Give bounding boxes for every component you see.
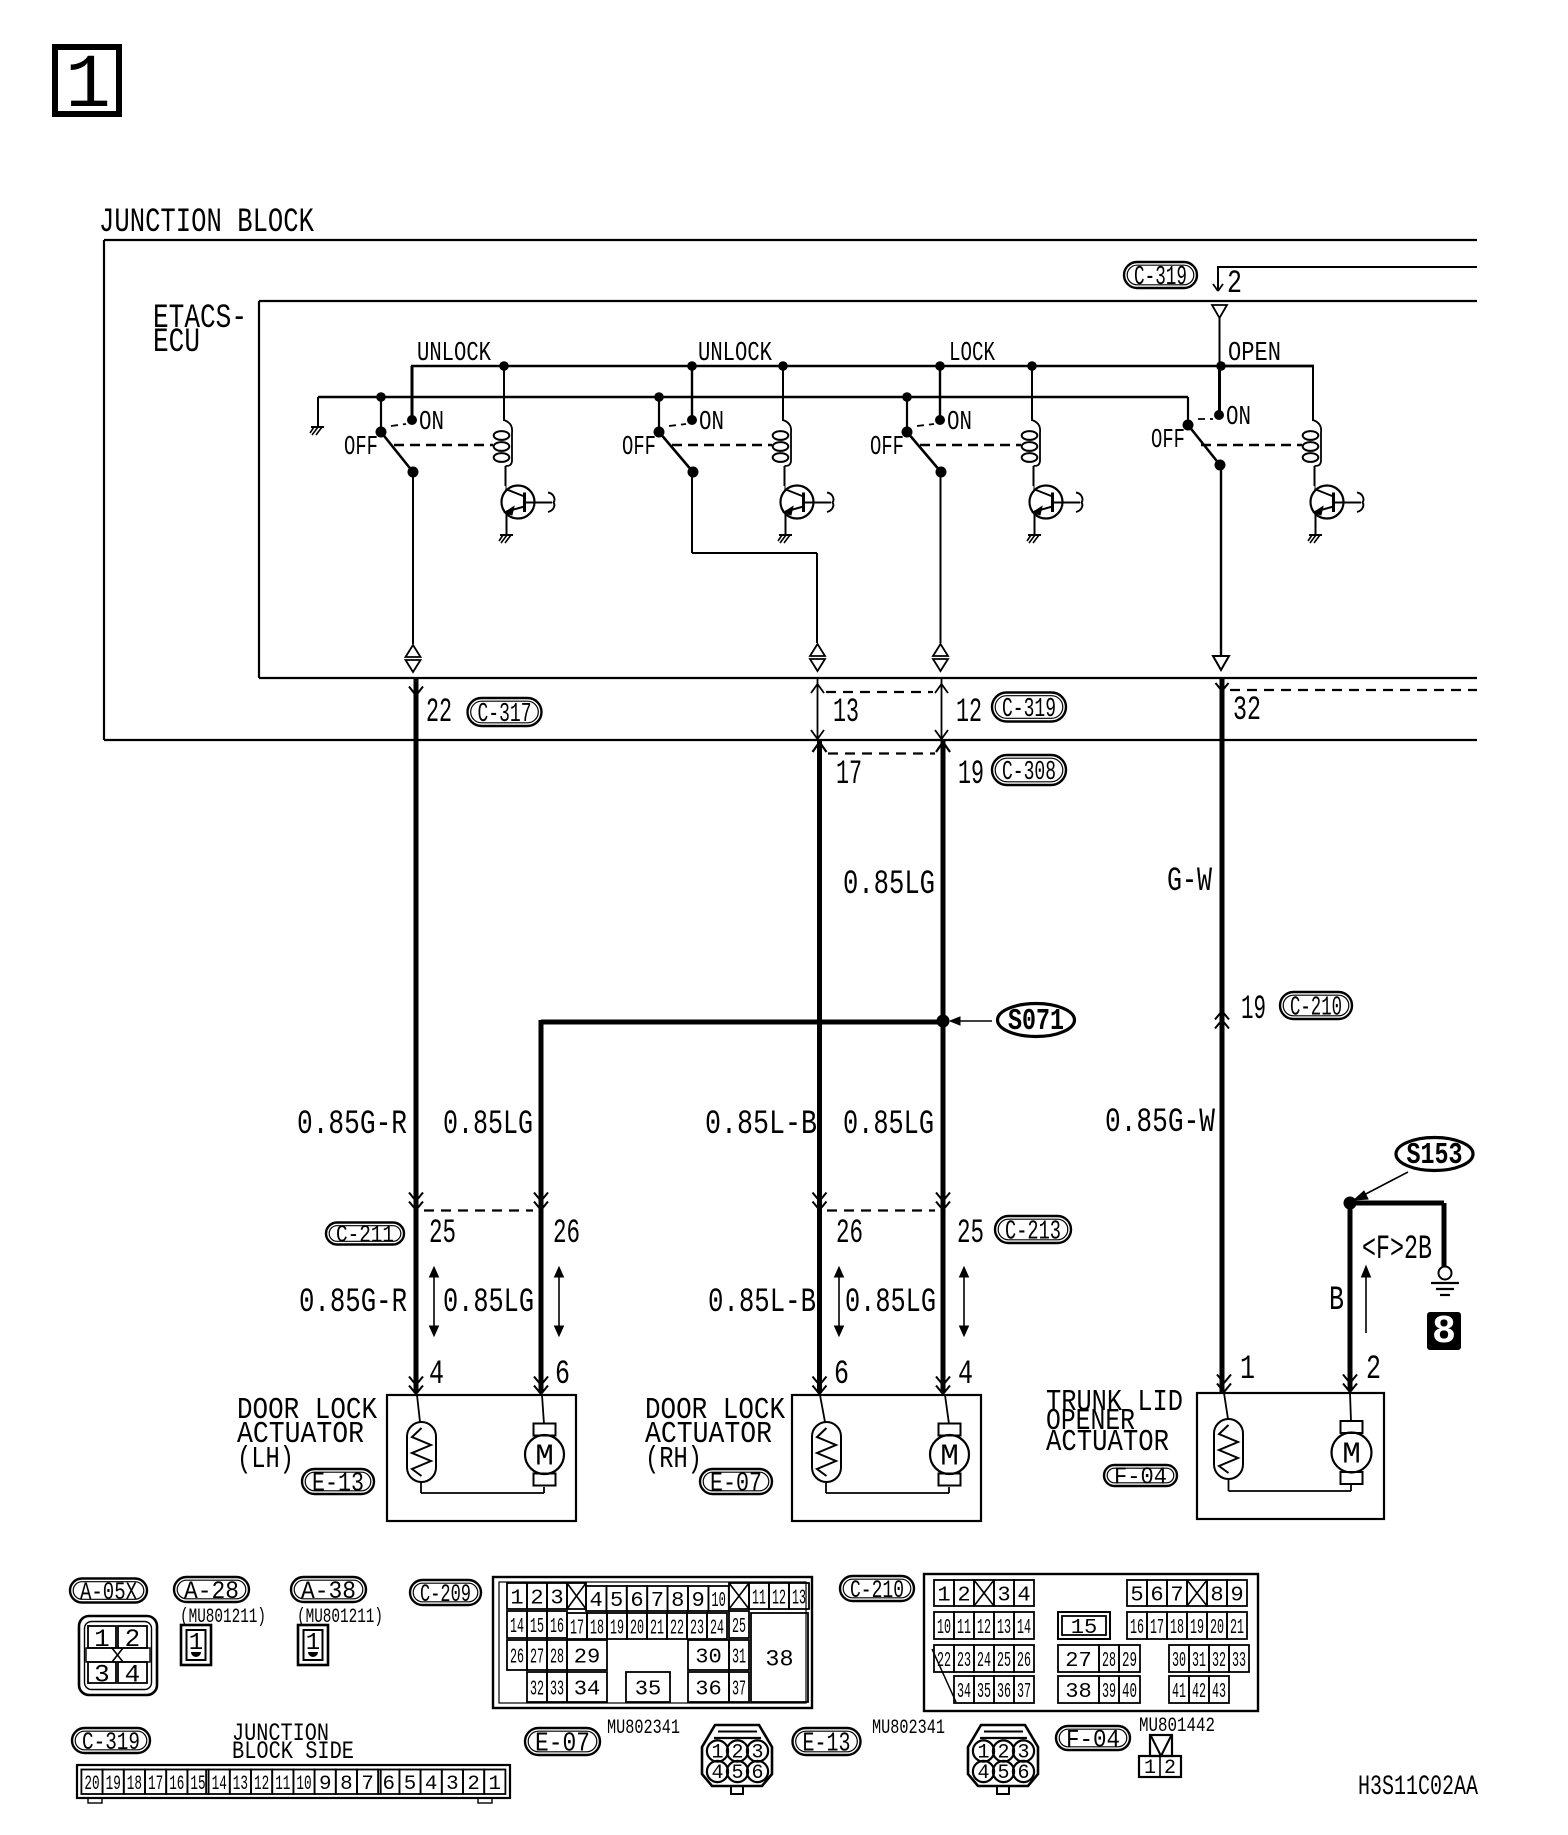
- svg-text:1: 1: [937, 1584, 950, 1608]
- switch S2 arm: [659, 432, 699, 478]
- svg-text:14: 14: [510, 1615, 524, 1639]
- svg-text:C-209: C-209: [420, 1580, 471, 1609]
- splice S071 pointer: [950, 1017, 992, 1025]
- svg-text:32: 32: [1212, 1649, 1226, 1673]
- switch S3 pivot: [902, 427, 913, 438]
- direction arrow 4: [960, 1267, 969, 1336]
- connector E-13 pinout: [968, 1725, 1038, 1794]
- connector symbol into ETACS: [1212, 305, 1227, 363]
- svg-text:18: 18: [127, 1773, 142, 1796]
- relay unit 2 label UNLOCK: [698, 338, 772, 368]
- direction arrow (F)2B: [1362, 1266, 1371, 1333]
- svg-text:19: 19: [610, 1617, 624, 1641]
- ground (ON bus left end): [310, 397, 324, 435]
- svg-text:2: 2: [957, 1584, 970, 1608]
- wire label G-W: [1167, 863, 1212, 901]
- svg-text:38: 38: [1065, 1680, 1092, 1704]
- body ground: [1431, 1267, 1459, 1296]
- svg-text:37: 37: [732, 1678, 746, 1702]
- page ref 8: [1427, 1310, 1461, 1355]
- svg-text:0.85LG: 0.85LG: [443, 1106, 533, 1144]
- svg-text:M: M: [1342, 1438, 1361, 1473]
- svg-text:0.85LG: 0.85LG: [443, 1284, 534, 1322]
- svg-text:19: 19: [958, 756, 984, 794]
- wire label 0.85LG (right lower): [845, 1284, 936, 1322]
- switch S4 OFF label: [1151, 425, 1185, 455]
- connector E-07 ref: [700, 1469, 772, 1500]
- svg-text:E-07: E-07: [535, 1729, 590, 1760]
- node coil2 tap: [778, 361, 788, 371]
- svg-text:4: 4: [711, 1762, 723, 1785]
- svg-text:16: 16: [169, 1773, 184, 1796]
- svg-text:7: 7: [651, 1589, 664, 1613]
- svg-text:1: 1: [94, 1625, 110, 1654]
- node ON3 tap: [935, 361, 945, 371]
- svg-text:11: 11: [957, 1616, 971, 1640]
- svg-text:C-210: C-210: [850, 1576, 904, 1605]
- svg-text:1: 1: [65, 43, 111, 129]
- svg-text:35: 35: [635, 1678, 662, 1702]
- svg-text:4: 4: [425, 1773, 438, 1796]
- svg-text:26: 26: [510, 1646, 524, 1670]
- svg-text:24: 24: [977, 1649, 991, 1673]
- ground (under Q3): [1027, 535, 1041, 543]
- svg-text:20: 20: [1210, 1616, 1224, 1640]
- wire label 0.85LG (upper): [843, 866, 935, 904]
- svg-text:8: 8: [1210, 1584, 1223, 1608]
- svg-text:6: 6: [834, 1356, 849, 1394]
- connector C-210 ref (bottom): [840, 1576, 914, 1605]
- svg-text:34: 34: [957, 1680, 971, 1704]
- svg-text:A-05X: A-05X: [80, 1578, 137, 1607]
- wire 17 (below JB): [813, 741, 863, 1209]
- svg-text:25: 25: [997, 1649, 1011, 1673]
- svg-text:36: 36: [997, 1680, 1011, 1704]
- wire label B: [1329, 1282, 1344, 1320]
- svg-text:0.85L-B: 0.85L-B: [705, 1106, 817, 1144]
- ETACS-ECU box: [259, 301, 1477, 678]
- wire bus2 to pivot1: [376, 392, 386, 432]
- svg-text:25: 25: [429, 1215, 456, 1253]
- connector E-13 ref: [302, 1469, 374, 1500]
- connector C-209 pinout: [493, 1577, 812, 1708]
- svg-text:2: 2: [125, 1625, 141, 1654]
- svg-text:18: 18: [1170, 1616, 1184, 1640]
- svg-text:13: 13: [792, 1587, 806, 1611]
- svg-text:37: 37: [1017, 1680, 1031, 1704]
- connector A-38 pinout (MU801211): [297, 1606, 383, 1665]
- svg-text:34: 34: [574, 1678, 601, 1702]
- relay unit 1 label UNLOCK: [417, 338, 491, 368]
- svg-text:22: 22: [937, 1649, 951, 1673]
- relay coil K2: [773, 366, 791, 486]
- connector C-319 junction block side pinout: [77, 1765, 510, 1803]
- svg-text:12: 12: [977, 1616, 991, 1640]
- svg-text:14: 14: [1017, 1616, 1031, 1640]
- wire 32: [1216, 679, 1262, 1393]
- wire B to pin 2: [1343, 1203, 1381, 1392]
- connector A-28 ref: [174, 1577, 249, 1606]
- svg-text:S071: S071: [1008, 1005, 1064, 1039]
- svg-text:20: 20: [630, 1617, 644, 1641]
- svg-text:(RH): (RH): [645, 1443, 702, 1477]
- connector C-319 (mid): [992, 693, 1066, 726]
- svg-text:5: 5: [1130, 1584, 1143, 1608]
- svg-text:A-38: A-38: [301, 1577, 356, 1606]
- switch S4 pivot: [1183, 420, 1194, 431]
- svg-text:0.85G-W: 0.85G-W: [1105, 1104, 1215, 1142]
- svg-text:G-W: G-W: [1167, 863, 1212, 901]
- svg-text:27: 27: [530, 1646, 544, 1670]
- svg-text:ON: ON: [1226, 402, 1251, 432]
- svg-text:11: 11: [752, 1587, 766, 1611]
- connector C-210 (inline): [1280, 992, 1352, 1024]
- svg-text:23: 23: [690, 1617, 704, 1641]
- svg-text:5: 5: [610, 1589, 623, 1613]
- connector C-213: [995, 1216, 1071, 1248]
- transistor Q3: [1030, 486, 1083, 535]
- transistor Q4: [1311, 486, 1364, 535]
- wire Q-out 3: [933, 471, 948, 671]
- svg-text:28: 28: [550, 1646, 564, 1670]
- ETACS-ECU label: [153, 300, 247, 362]
- svg-text:32: 32: [530, 1678, 544, 1702]
- svg-text:OPEN: OPEN: [1228, 338, 1281, 368]
- wire 19 to pin 4: [936, 1208, 973, 1394]
- svg-text:0.85G-R: 0.85G-R: [299, 1284, 407, 1322]
- relay coil K4 dashed link: [1201, 444, 1302, 446]
- svg-text:39: 39: [1102, 1680, 1116, 1704]
- switch S4 dashed throw: [1198, 418, 1213, 420]
- junction block side label: [232, 1719, 354, 1766]
- svg-text:30: 30: [1172, 1649, 1186, 1673]
- svg-text:7: 7: [1170, 1584, 1183, 1608]
- switch S2 dashed throw: [669, 424, 686, 426]
- connector C-317: [468, 698, 542, 730]
- connector A-05X pinout: [79, 1616, 157, 1695]
- wire 22 (pin 22 C-317): [409, 679, 452, 1208]
- relay coil K3: [1022, 366, 1040, 486]
- svg-text:2: 2: [1164, 1757, 1176, 1780]
- relay coil K1 dashed link: [394, 444, 493, 446]
- svg-text:C-319: C-319: [1002, 694, 1056, 725]
- svg-text:25: 25: [957, 1215, 984, 1253]
- part no MU802341 (E-07): [607, 1717, 680, 1740]
- switch S2 OFF label: [622, 432, 656, 462]
- connector C-308: [992, 755, 1066, 788]
- svg-text:26: 26: [1017, 1649, 1031, 1673]
- svg-text:ON: ON: [699, 407, 724, 437]
- svg-text:30: 30: [695, 1646, 722, 1670]
- wire UNLOCK/LOCK/OPEN bus: [411, 365, 1314, 368]
- svg-text:5: 5: [731, 1762, 743, 1785]
- svg-text:3: 3: [550, 1587, 563, 1611]
- connector C-210 crossing pin 19: [1215, 991, 1266, 1029]
- switch S3 arm: [907, 432, 947, 478]
- svg-text:19: 19: [106, 1773, 121, 1796]
- svg-text:12: 12: [772, 1587, 786, 1611]
- door lock actuator LH (E-13): [237, 1394, 576, 1521]
- svg-text:2: 2: [530, 1587, 543, 1611]
- splice S153 pointer: [1354, 1172, 1408, 1200]
- trunk lid opener actuator (F-04): [1046, 1386, 1384, 1519]
- svg-text:13: 13: [997, 1616, 1011, 1640]
- svg-text:3: 3: [94, 1661, 110, 1690]
- svg-text:F-04: F-04: [1066, 1725, 1120, 1754]
- wire label 0.85G-R (lower): [299, 1284, 407, 1322]
- wire Q-out 2 jog: [692, 469, 825, 671]
- svg-text:22: 22: [426, 694, 452, 732]
- svg-text:6: 6: [555, 1356, 570, 1394]
- svg-text:F-04: F-04: [1114, 1464, 1167, 1491]
- svg-text:7: 7: [361, 1773, 374, 1796]
- transistor Q1: [502, 486, 555, 535]
- svg-text:17: 17: [570, 1617, 584, 1641]
- svg-text:1: 1: [510, 1587, 523, 1611]
- direction arrow 3: [835, 1267, 844, 1336]
- connector C-210 pinout: [924, 1574, 1258, 1711]
- ground (under Q2): [778, 535, 792, 543]
- svg-text:ECU: ECU: [153, 324, 200, 362]
- splice S153: [1396, 1138, 1473, 1174]
- svg-text:11: 11: [275, 1773, 290, 1796]
- svg-text:40: 40: [1122, 1680, 1137, 1704]
- svg-text:(LH): (LH): [237, 1443, 294, 1477]
- svg-text:LOCK: LOCK: [949, 338, 995, 368]
- connector F-04 ref (bottom): [1056, 1725, 1130, 1754]
- wire 19 (below JB): [936, 741, 984, 1021]
- wire branch at C-211 pin 26: [534, 1193, 580, 1254]
- switch S2 ON contact: [687, 407, 724, 437]
- wire bus1 to ON1: [411, 366, 414, 420]
- svg-text:15: 15: [190, 1773, 205, 1796]
- wire pin13 segment: [811, 679, 859, 739]
- node coil1 tap: [499, 361, 509, 371]
- svg-text:<F>2B: <F>2B: [1362, 1231, 1432, 1269]
- junction dashed link 17-19: [828, 752, 935, 754]
- junction dashed link 13-12: [826, 691, 933, 693]
- part no MU801442: [1139, 1715, 1215, 1738]
- svg-text:B: B: [1329, 1282, 1344, 1320]
- svg-text:20: 20: [84, 1773, 99, 1796]
- relay coil K4: [1303, 366, 1321, 486]
- wire bus1 to ON2: [691, 366, 693, 420]
- svg-text:4: 4: [125, 1661, 141, 1690]
- connector E-07 ref (bottom): [525, 1728, 600, 1760]
- svg-text:13: 13: [833, 694, 859, 732]
- svg-text:6: 6: [1150, 1584, 1163, 1608]
- wire 19 lower: [941, 1021, 946, 1209]
- wire label 0.85L-B (upper): [705, 1106, 817, 1144]
- svg-text:M: M: [535, 1440, 554, 1475]
- svg-text:S153: S153: [1407, 1139, 1463, 1173]
- connector C-209 ref: [410, 1580, 481, 1609]
- wire label 0.85LG (right upper): [843, 1106, 934, 1144]
- svg-text:BLOCK SIDE: BLOCK SIDE: [232, 1737, 354, 1766]
- svg-text:0.85L-B: 0.85L-B: [708, 1284, 816, 1322]
- svg-text:26: 26: [836, 1215, 863, 1253]
- switch S4 ON contact: [1214, 402, 1251, 432]
- node ON2 tap: [687, 361, 697, 371]
- relay coil K1: [494, 366, 512, 486]
- node S153: [1344, 1197, 1357, 1210]
- svg-text:16: 16: [1130, 1616, 1144, 1640]
- connector F-04 pinout: [1139, 1735, 1181, 1780]
- svg-text:21: 21: [650, 1617, 664, 1641]
- wire pin12 segment: [935, 679, 982, 739]
- switch S3 OFF label: [870, 432, 904, 462]
- svg-text:ACTUATOR: ACTUATOR: [1046, 1426, 1169, 1460]
- svg-text:8: 8: [671, 1589, 684, 1613]
- connector A-05X ref: [70, 1578, 147, 1607]
- svg-text:6: 6: [751, 1762, 763, 1785]
- wire 22 at C-211 pin 25: [409, 1193, 456, 1254]
- connector E-07 pinout: [702, 1725, 772, 1794]
- wire 32 to pin 1: [1217, 1351, 1255, 1392]
- svg-text:2: 2: [1227, 265, 1242, 302]
- svg-text:15: 15: [530, 1615, 544, 1639]
- dashed link C-211: [424, 1209, 533, 1211]
- svg-text:27: 27: [1065, 1649, 1092, 1673]
- ground (under Q1): [499, 535, 513, 543]
- svg-text:6: 6: [1017, 1762, 1029, 1785]
- node S071: [937, 1015, 950, 1028]
- svg-text:15: 15: [1071, 1616, 1098, 1640]
- svg-text:E-07: E-07: [710, 1469, 762, 1500]
- switch S1 dashed throw: [391, 424, 406, 426]
- relay coil K2 dashed link: [672, 444, 772, 446]
- svg-text:21: 21: [1230, 1616, 1244, 1640]
- dashed link C-213: [827, 1209, 935, 1211]
- svg-text:JUNCTION BLOCK: JUNCTION BLOCK: [99, 204, 314, 242]
- svg-text:C-210: C-210: [1290, 993, 1342, 1024]
- svg-text:C-308: C-308: [1002, 757, 1056, 788]
- relay unit 3 label LOCK: [949, 338, 995, 368]
- svg-text:31: 31: [1192, 1649, 1206, 1673]
- svg-text:12: 12: [956, 694, 982, 732]
- svg-text:8: 8: [1432, 1310, 1456, 1355]
- svg-text:0.85LG: 0.85LG: [845, 1284, 936, 1322]
- svg-text:18: 18: [590, 1617, 604, 1641]
- connector C-211: [326, 1222, 404, 1249]
- wire bus2 to pivot2: [654, 392, 664, 432]
- wire Q-out 4: [1213, 465, 1229, 670]
- svg-text:6: 6: [630, 1589, 643, 1613]
- svg-text:C-317: C-317: [478, 699, 532, 730]
- node coil3 tap: [1027, 361, 1037, 371]
- svg-text:C-319: C-319: [1134, 262, 1187, 293]
- svg-text:28: 28: [1102, 1649, 1116, 1673]
- svg-text:4: 4: [429, 1356, 444, 1394]
- svg-text:12: 12: [254, 1773, 269, 1796]
- svg-text:41: 41: [1172, 1680, 1186, 1704]
- svg-text:UNLOCK: UNLOCK: [417, 338, 491, 368]
- svg-text:OFF: OFF: [1151, 425, 1185, 455]
- connector C-319 (top feed from page right): [1124, 262, 1197, 293]
- svg-text:35: 35: [977, 1680, 991, 1704]
- wire 17 to pin 6: [813, 1208, 850, 1394]
- svg-text:10: 10: [937, 1616, 951, 1640]
- wire ON common bus: [318, 396, 1188, 398]
- direction arrow 1: [430, 1267, 439, 1336]
- svg-text:9: 9: [1230, 1584, 1243, 1608]
- switch S3 dashed throw: [917, 424, 934, 426]
- part no MU802341 (E-13): [872, 1717, 945, 1740]
- svg-text:8: 8: [340, 1773, 353, 1796]
- svg-text:C-211: C-211: [336, 1222, 394, 1249]
- svg-text:29: 29: [574, 1646, 601, 1670]
- svg-text:A-28: A-28: [184, 1577, 239, 1606]
- svg-text:M: M: [940, 1440, 959, 1475]
- wire B branch to ground: [1350, 1203, 1444, 1266]
- ground (under Q4): [1308, 535, 1322, 543]
- svg-text:E-13: E-13: [312, 1469, 364, 1500]
- svg-text:MU802341: MU802341: [607, 1717, 680, 1740]
- svg-text:29: 29: [1122, 1649, 1137, 1673]
- svg-text:OFF: OFF: [622, 432, 656, 462]
- connector A-28 pinout (MU801211): [180, 1606, 266, 1665]
- connector A-38 ref: [291, 1577, 366, 1606]
- svg-text:0.85LG: 0.85LG: [843, 866, 935, 904]
- svg-text:9: 9: [692, 1589, 705, 1613]
- svg-text:0.85LG: 0.85LG: [843, 1106, 934, 1144]
- wire OPEN vertical: [1220, 363, 1315, 415]
- wire bus2 to pivot3: [902, 392, 912, 432]
- svg-text:4: 4: [1017, 1584, 1030, 1608]
- svg-text:26: 26: [553, 1215, 580, 1253]
- wire label 0.85G-R (upper): [297, 1106, 407, 1144]
- svg-text:36: 36: [695, 1678, 722, 1702]
- svg-text:42: 42: [1192, 1680, 1206, 1704]
- svg-text:1: 1: [1240, 1351, 1255, 1389]
- drawing number: [1358, 1772, 1478, 1803]
- svg-text:32: 32: [1233, 692, 1261, 730]
- svg-text:38: 38: [765, 1647, 793, 1673]
- switch S1 arm: [381, 432, 419, 478]
- switch S2 pivot: [654, 427, 665, 438]
- svg-text:0.85G-R: 0.85G-R: [297, 1106, 407, 1144]
- svg-text:3: 3: [997, 1584, 1010, 1608]
- junction block label: [99, 204, 314, 242]
- svg-text:6: 6: [383, 1773, 396, 1796]
- svg-text:43: 43: [1212, 1680, 1226, 1704]
- wire label 0.85LG (left upper): [443, 1106, 533, 1144]
- svg-text:22: 22: [670, 1617, 684, 1641]
- svg-text:17: 17: [148, 1773, 163, 1796]
- svg-text:UNLOCK: UNLOCK: [698, 338, 772, 368]
- switch S1 pivot: [376, 427, 387, 438]
- wire 17 at C-213 pin 26: [813, 1193, 864, 1254]
- svg-text:OFF: OFF: [870, 432, 904, 462]
- switch S4 arm: [1188, 425, 1226, 471]
- svg-text:2: 2: [1366, 1351, 1381, 1389]
- svg-text:C-319: C-319: [82, 1728, 140, 1757]
- wire 22 to pin 4: [409, 1208, 444, 1394]
- svg-text:25: 25: [732, 1615, 746, 1639]
- wire label 0.85G-W: [1105, 1104, 1215, 1142]
- svg-text:E-13: E-13: [803, 1729, 851, 1760]
- svg-text:ON: ON: [947, 407, 972, 437]
- switch S1 ON contact: [407, 407, 444, 437]
- connector C-319 ref (junction block side): [72, 1728, 150, 1757]
- svg-text:4: 4: [958, 1356, 973, 1394]
- svg-text:1: 1: [489, 1773, 502, 1796]
- switch S1 OFF label: [344, 432, 378, 462]
- junction block box: [104, 240, 1477, 740]
- svg-text:19: 19: [1190, 1616, 1204, 1640]
- wire Q-out 1: [406, 472, 421, 672]
- svg-text:31: 31: [732, 1646, 746, 1670]
